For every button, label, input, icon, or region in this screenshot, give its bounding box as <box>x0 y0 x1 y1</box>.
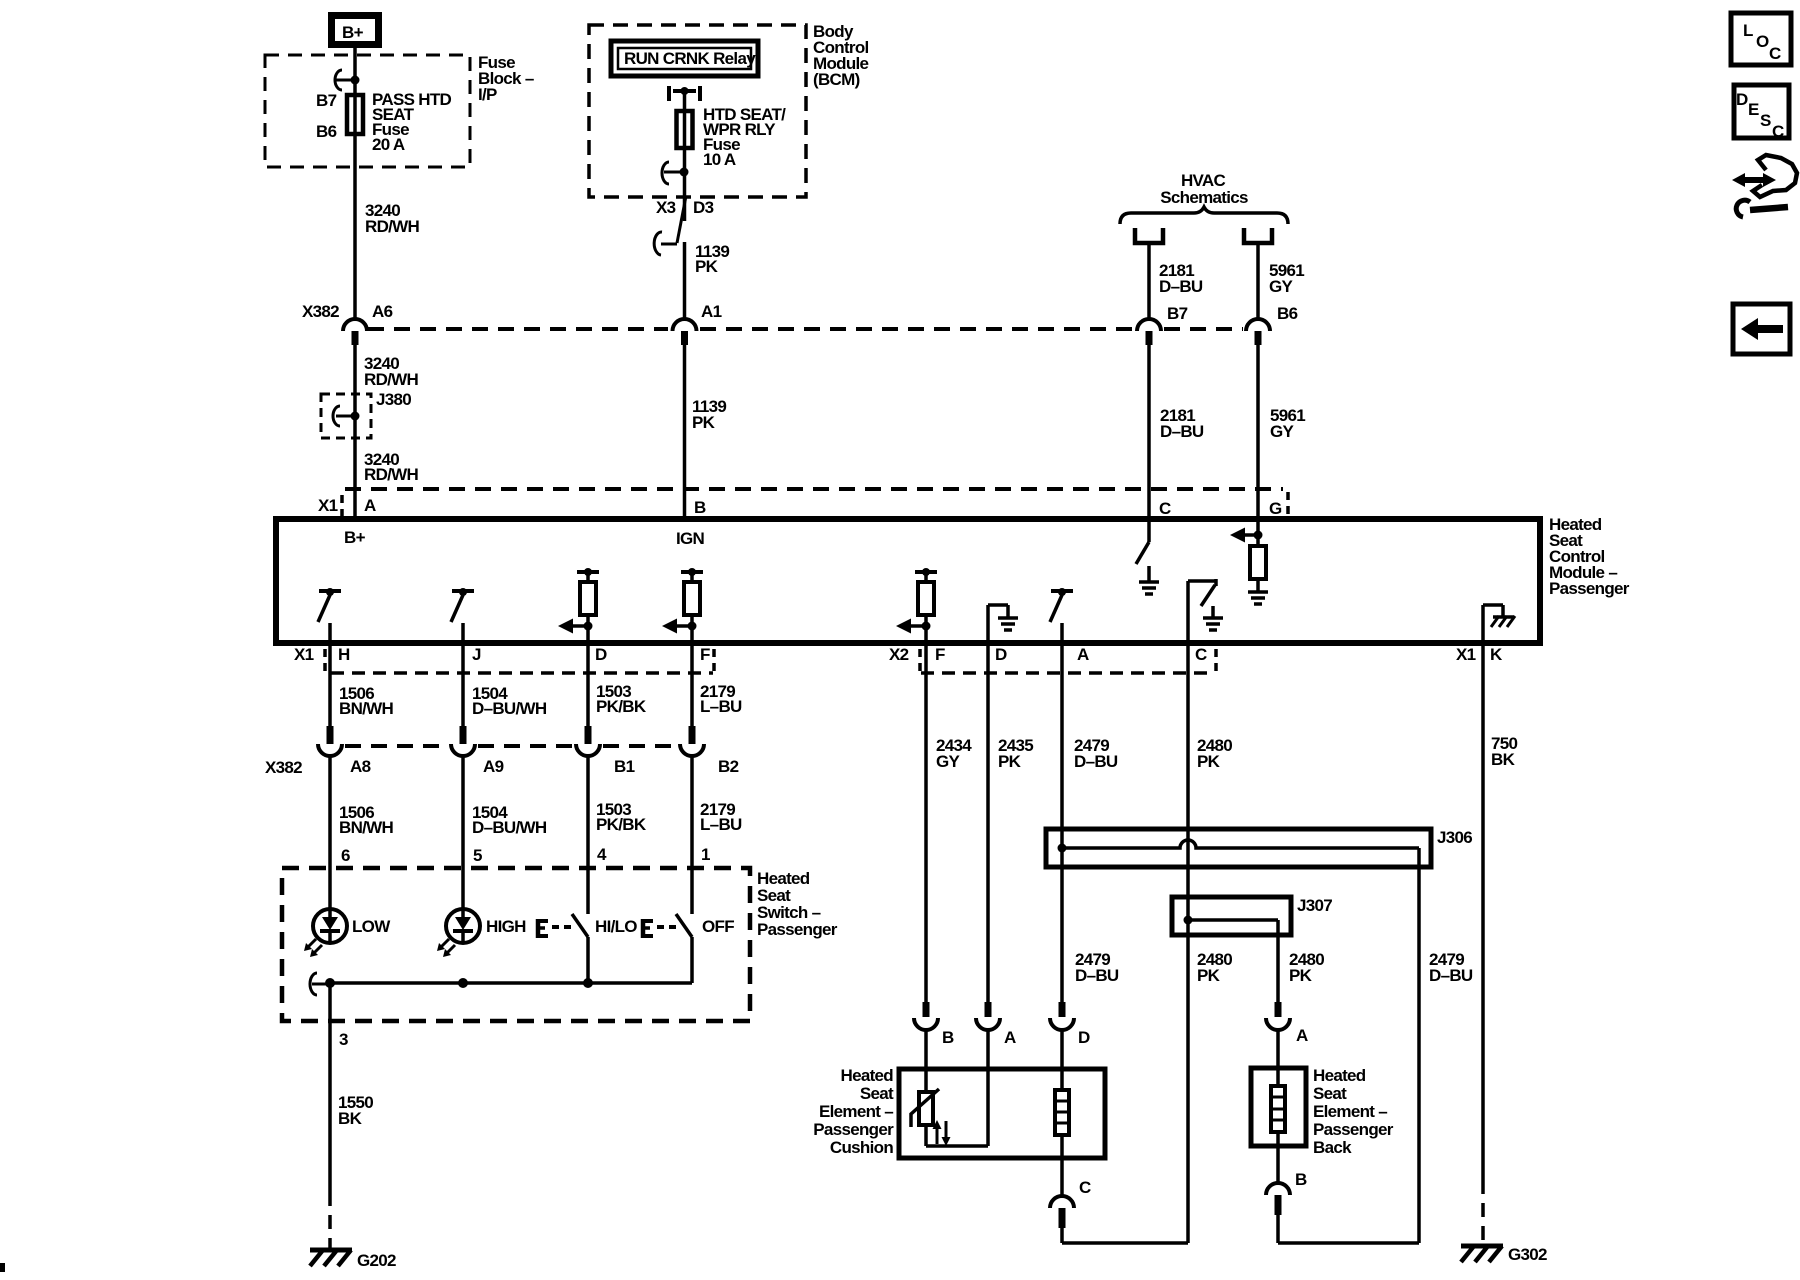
X1 connector row dashed line <box>318 489 1288 518</box>
svg-text:B: B <box>942 1028 954 1047</box>
fuse HTD SEAT/WPR RLY 10A <box>677 105 787 169</box>
svg-text:C: C <box>1159 499 1171 518</box>
svg-text:Seat: Seat <box>1313 1084 1347 1103</box>
HVAC Schematics header and brace <box>1120 171 1288 224</box>
icon LOC box <box>1731 13 1791 65</box>
svg-text:OFF: OFF <box>702 917 734 936</box>
wire 2480 PK J307 branch to back element A <box>1278 920 1324 1002</box>
Heated Seat Element Passenger Back box <box>1251 1066 1394 1157</box>
wire 1550 BK switch pin 3 to G202 <box>330 983 373 1248</box>
wire 2479 D-BU J306 branch to back element B <box>1419 848 1473 1243</box>
thermistor in cushion element <box>911 1089 988 1146</box>
svg-text:H: H <box>338 645 350 664</box>
module internal sense resistor to ground at pin G <box>1230 521 1268 604</box>
module internal switch at pin X2-A <box>1050 588 1073 641</box>
svg-text:F: F <box>935 645 945 664</box>
module internal ground at pin X2-D <box>988 605 1018 641</box>
B+ power symbol <box>332 16 379 45</box>
heater element in back <box>1271 1086 1285 1183</box>
RUN CRNK Relay box <box>611 41 758 76</box>
svg-text:X1: X1 <box>318 496 338 515</box>
svg-text:X382: X382 <box>302 302 339 321</box>
wire B6 to module pin G, label 5961 GY <box>1258 345 1305 519</box>
svg-text:A8: A8 <box>350 757 371 776</box>
svg-text:D–BU: D–BU <box>1429 966 1473 985</box>
svg-text:Element –: Element – <box>1313 1102 1387 1121</box>
HVAC left bracket connector <box>1135 228 1163 243</box>
wire X3 to A1, label 1139 PK <box>685 242 730 318</box>
svg-text:HIGH: HIGH <box>486 917 526 936</box>
svg-text:A6: A6 <box>372 302 393 321</box>
splice pack J307 <box>1172 896 1332 935</box>
svg-text:B7: B7 <box>316 91 337 110</box>
wire 1504 D-BU/WH pin J to X382 A9 <box>463 644 547 726</box>
svg-text:A: A <box>1004 1028 1016 1047</box>
svg-text:B6: B6 <box>1277 304 1298 323</box>
svg-text:PK/BK: PK/BK <box>596 697 647 716</box>
svg-text:C: C <box>1772 122 1784 141</box>
svg-text:10 A: 10 A <box>703 150 736 169</box>
svg-text:D–BU: D–BU <box>1074 752 1118 771</box>
svg-text:PK: PK <box>695 257 719 276</box>
svg-text:B+: B+ <box>344 528 366 547</box>
svg-text:Heated: Heated <box>841 1066 894 1085</box>
svg-text:GY: GY <box>1269 277 1294 296</box>
svg-text:C: C <box>1079 1178 1091 1197</box>
X2 pin row labels below module <box>889 645 1216 673</box>
heater element in cushion <box>1055 1090 1069 1196</box>
svg-text:RUN CRNK Relay: RUN CRNK Relay <box>624 49 756 68</box>
wire 1504 D-BU/WH to switch pin 5 <box>463 757 547 909</box>
svg-text:B+: B+ <box>342 23 364 42</box>
svg-text:O: O <box>1756 32 1769 51</box>
svg-text:K: K <box>1490 645 1503 664</box>
module internal chassis ground at pin K <box>1483 605 1515 641</box>
svg-text:B6: B6 <box>316 122 337 141</box>
svg-text:Back: Back <box>1313 1138 1352 1157</box>
wire 2179 L-BU pin F to X382 B2 <box>692 644 742 726</box>
module internal driver resistor at pin D <box>558 568 599 641</box>
svg-text:A9: A9 <box>483 757 504 776</box>
switch OFF with actuator <box>643 914 734 983</box>
wire 2479 D-BU pin X2-A to J306 and element D <box>1062 644 1119 1002</box>
wire 1506 BN/WH to switch pin 6 <box>330 757 394 909</box>
svg-text:PK: PK <box>1289 966 1313 985</box>
svg-text:A: A <box>1077 645 1089 664</box>
svg-text:HI/LO: HI/LO <box>595 917 637 936</box>
svg-text:RD/WH: RD/WH <box>364 465 419 484</box>
switch common bus <box>310 973 692 995</box>
svg-text:G302: G302 <box>1508 1245 1547 1264</box>
connector A cushion element <box>976 1002 1016 1146</box>
svg-text:LOW: LOW <box>352 917 391 936</box>
fuse block feed tap hook <box>335 70 360 90</box>
X1 pin K label below module <box>1456 645 1503 664</box>
svg-text:E: E <box>1748 100 1759 119</box>
svg-text:A1: A1 <box>701 302 722 321</box>
svg-text:BK: BK <box>338 1109 363 1128</box>
svg-text:B: B <box>1295 1170 1307 1189</box>
wire 5961 GY upper <box>1258 245 1304 318</box>
wire 2179 L-BU to switch pin 1 <box>692 757 742 914</box>
svg-text:GY: GY <box>936 752 961 771</box>
connector B back element <box>1266 1170 1419 1243</box>
module internal switch to ground at pin X2-C <box>1188 579 1223 641</box>
connector B cushion element <box>914 1002 954 1092</box>
svg-text:G: G <box>1269 499 1282 518</box>
svg-text:X1: X1 <box>294 645 314 664</box>
svg-text:D: D <box>995 645 1007 664</box>
svg-text:F: F <box>700 645 710 664</box>
Heated Seat Control Module box <box>276 515 1630 643</box>
svg-text:D: D <box>595 645 607 664</box>
svg-text:X2: X2 <box>889 645 909 664</box>
scan artifact dot <box>0 1263 5 1272</box>
svg-text:J306: J306 <box>1437 828 1472 847</box>
svg-text:X382: X382 <box>265 758 302 777</box>
X1 pin row labels below module <box>294 645 714 673</box>
svg-text:A: A <box>1296 1026 1308 1045</box>
svg-text:BN/WH: BN/WH <box>339 699 394 718</box>
splice J380 <box>321 390 411 438</box>
svg-text:1: 1 <box>701 845 710 864</box>
splice pack J306 <box>1046 828 1472 867</box>
svg-text:PK: PK <box>1197 752 1221 771</box>
connector X382 pin A1 <box>673 302 722 345</box>
switch HI/LO with actuator <box>538 914 637 983</box>
svg-text:4: 4 <box>597 845 607 864</box>
svg-text:L: L <box>1743 21 1753 40</box>
Heated Seat Switch dashed box <box>282 868 838 1021</box>
svg-text:D: D <box>1078 1028 1090 1047</box>
svg-text:Passenger: Passenger <box>757 920 838 939</box>
wire relay to fuse <box>683 91 687 221</box>
svg-text:Seat: Seat <box>860 1084 894 1103</box>
fuse PASS HTD SEAT 20A <box>316 90 452 154</box>
HVAC right bracket connector <box>1244 228 1272 243</box>
Heated Seat Element Passenger Cushion box <box>813 1066 1105 1158</box>
svg-text:G202: G202 <box>357 1251 396 1270</box>
Body Control Module (BCM) dashed box <box>589 22 869 197</box>
svg-text:6: 6 <box>341 846 350 865</box>
svg-text:(BCM): (BCM) <box>813 70 860 89</box>
svg-text:PK: PK <box>998 752 1022 771</box>
wire 2435 PK pin X2-D to element A <box>988 644 1033 1002</box>
svg-text:D–BU: D–BU <box>1160 422 1204 441</box>
icon DESC box <box>1734 85 1789 141</box>
svg-text:RD/WH: RD/WH <box>365 217 420 236</box>
svg-text:J380: J380 <box>376 390 411 409</box>
svg-text:C: C <box>1195 645 1207 664</box>
svg-text:S: S <box>1760 111 1771 130</box>
svg-text:BN/WH: BN/WH <box>339 818 394 837</box>
wire 750 BK pin K to G302 <box>1483 644 1518 1242</box>
icon exchange arrow with wrench <box>1732 155 1797 217</box>
ground G202 <box>310 1250 396 1270</box>
svg-text:B: B <box>694 498 706 517</box>
connector X382 pin B6 <box>1246 304 1298 345</box>
icon back arrow box <box>1733 304 1790 354</box>
svg-text:A: A <box>364 496 376 515</box>
svg-text:J307: J307 <box>1297 896 1332 915</box>
ground G302 <box>1461 1245 1547 1264</box>
wire 2181 D-BU upper <box>1149 245 1203 318</box>
svg-text:D–BU/WH: D–BU/WH <box>472 818 547 837</box>
svg-text:BK: BK <box>1491 750 1516 769</box>
svg-text:D–BU: D–BU <box>1159 277 1203 296</box>
svg-text:X3: X3 <box>656 198 676 217</box>
svg-text:Passenger: Passenger <box>1549 579 1630 598</box>
svg-text:PK/BK: PK/BK <box>596 815 647 834</box>
svg-text:IGN: IGN <box>676 529 705 548</box>
wire 1506 BN/WH pin H to X382 A8 <box>330 644 394 726</box>
module internal switch at pin J <box>451 588 474 641</box>
connector X382 pin B2 <box>680 726 739 776</box>
svg-text:Element –: Element – <box>819 1102 893 1121</box>
wire 2434 GY pin X2-F to element B <box>926 644 972 1002</box>
LED indicator LOW <box>304 909 391 957</box>
connector A back element <box>1266 1002 1308 1086</box>
wire 1503 PK/BK pin D to X382 B1 <box>588 644 647 726</box>
svg-text:Passenger: Passenger <box>1313 1120 1394 1139</box>
svg-text:GY: GY <box>1270 422 1295 441</box>
svg-text:J: J <box>472 645 481 664</box>
svg-text:20 A: 20 A <box>372 135 405 154</box>
svg-text:C: C <box>1769 44 1781 63</box>
svg-text:D–BU: D–BU <box>1075 966 1119 985</box>
tap hook below fuse <box>662 162 689 184</box>
connector C cushion element <box>1050 1178 1188 1243</box>
svg-text:X1: X1 <box>1456 645 1476 664</box>
module internal switch to ground at pin C top <box>1136 521 1159 594</box>
svg-text:D3: D3 <box>693 198 714 217</box>
X382 lower connector row <box>265 746 677 777</box>
wire from B+ through fuse to X382 A6 <box>353 48 357 318</box>
svg-text:PK: PK <box>692 413 716 432</box>
module internal switch at pin H <box>318 588 341 641</box>
svg-text:B2: B2 <box>718 757 739 776</box>
module internal driver resistor at pin F <box>662 568 703 641</box>
svg-text:B1: B1 <box>614 757 635 776</box>
connector X382 pin A6 <box>343 302 393 345</box>
X382 connector row dashed line <box>302 302 1243 329</box>
wire 2480 PK pin X2-C to J307 and cushion C <box>1188 644 1232 1243</box>
svg-text:Passenger: Passenger <box>813 1120 894 1139</box>
wire label 3240 RD/WH below J380 <box>364 450 419 484</box>
svg-text:D–BU/WH: D–BU/WH <box>472 699 547 718</box>
svg-text:Cushion: Cushion <box>830 1138 893 1157</box>
relay contact <box>669 86 700 101</box>
connector X382 pin A9 <box>451 726 504 776</box>
svg-text:Heated: Heated <box>1313 1066 1366 1085</box>
svg-text:B7: B7 <box>1167 304 1188 323</box>
LED indicator HIGH <box>437 909 526 957</box>
wire B7 to module pin C, label 2181 D-BU <box>1149 345 1204 519</box>
wire label 3240 RD/WH <box>365 201 420 236</box>
svg-text:5: 5 <box>473 846 482 865</box>
svg-text:I/P: I/P <box>478 85 497 104</box>
Fuse Block - I/P dashed box <box>265 53 534 167</box>
svg-text:D: D <box>1736 90 1748 109</box>
svg-text:3: 3 <box>339 1030 348 1049</box>
connector X382 pin B7 <box>1137 304 1188 345</box>
wire 1503 PK/BK to switch pin 4 <box>588 757 647 914</box>
connector X382 pin B1 <box>576 726 635 776</box>
connector X382 pin A8 <box>318 726 371 776</box>
connector X3 pin D3 <box>654 196 713 255</box>
svg-text:RD/WH: RD/WH <box>364 370 419 389</box>
svg-text:PK: PK <box>1197 966 1221 985</box>
module internal driver resistor at pin X2-F <box>896 568 937 641</box>
wire A1 to module pin B, label 1139 PK <box>685 345 727 519</box>
svg-text:L–BU: L–BU <box>700 697 742 716</box>
wire A6 to module pin A with J380 splice <box>355 345 419 519</box>
connector D cushion element <box>1050 1002 1090 1092</box>
svg-text:L–BU: L–BU <box>700 815 742 834</box>
